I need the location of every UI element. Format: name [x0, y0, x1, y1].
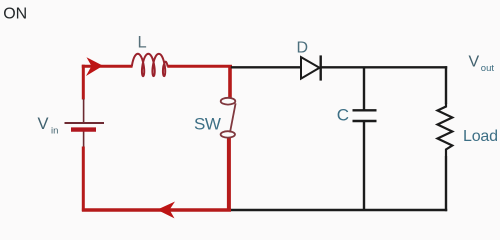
wire: battery bottom lead (thin): [83, 131, 85, 147]
wire: battery top lead (thin): [83, 99, 85, 122]
resistor Load: [438, 104, 453, 157]
diode D: [301, 57, 320, 79]
battery Vin: [65, 122, 105, 124]
svg-text:ON: ON: [3, 6, 27, 23]
wire: right rail bottom: [445, 156, 447, 211]
wire: C branch bottom: [363, 122, 365, 212]
current arrow bottom (left): [157, 202, 175, 219]
wire: bottom rail red: [82, 208, 231, 212]
svg-text:D: D: [297, 40, 309, 57]
svg-text:V: V: [38, 115, 49, 133]
svg-text:V: V: [469, 53, 480, 70]
wire: top rail black (SW node to diode): [231, 66, 301, 68]
wire: SW branch bottom red: [227, 138, 231, 210]
capacitor C: [353, 109, 377, 111]
svg-text:in: in: [51, 126, 58, 137]
wire: left rail red (lower): [82, 147, 85, 212]
inductor L: [132, 54, 168, 76]
wire: bottom rail black: [231, 209, 447, 211]
svg-text:Load: Load: [463, 128, 498, 145]
wire: SW branch top red: [228, 66, 232, 98]
current arrow top (right): [86, 57, 103, 76]
switch SW: [221, 98, 236, 105]
wire: right rail top: [445, 66, 447, 104]
wire: left rail red (top): [82, 65, 85, 100]
svg-text:C: C: [337, 105, 349, 124]
wire: C branch top: [363, 67, 365, 111]
svg-text:L: L: [138, 33, 147, 51]
svg-text:out: out: [481, 63, 495, 74]
wire: top rail black (diode to right rail): [320, 66, 447, 68]
wire: top rail red (Vin to SW node): [82, 65, 232, 68]
svg-text:SW: SW: [194, 114, 221, 133]
